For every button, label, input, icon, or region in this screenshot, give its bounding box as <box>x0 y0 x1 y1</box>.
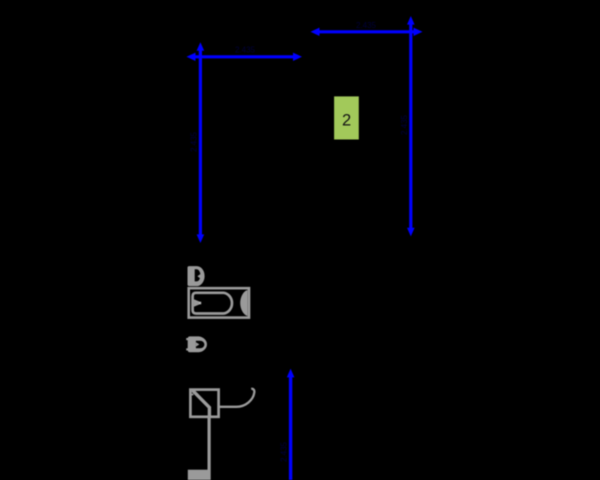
door frame <box>190 390 219 417</box>
wall block bottom <box>188 470 208 480</box>
wall segment below door <box>208 417 211 480</box>
dimension line C (horizontal, right) <box>311 21 423 36</box>
dimension line A (horizontal, left) <box>187 46 303 62</box>
dimension line E (vertical, bottom, single arrow) <box>280 369 295 480</box>
door leaf diagonal <box>193 390 210 416</box>
door swing arc <box>220 389 255 407</box>
svg-text:2.435: 2.435 <box>400 114 409 135</box>
svg-text:2.435: 2.435 <box>280 441 289 462</box>
svg-text:2: 2 <box>342 112 351 130</box>
toilet (top fixture) <box>188 266 205 286</box>
room label 2 (green) <box>334 96 359 139</box>
sink <box>186 336 207 352</box>
dimension line B (vertical, left) <box>190 42 205 243</box>
dimension line D (vertical, right) <box>400 16 415 236</box>
bathtub <box>189 288 249 317</box>
svg-text:2.435: 2.435 <box>356 21 377 30</box>
svg-text:2.435: 2.435 <box>235 46 256 55</box>
svg-text:2.435: 2.435 <box>190 131 199 152</box>
